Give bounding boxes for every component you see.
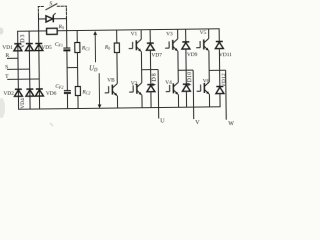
wire rectifier leg 3 <box>38 31 41 109</box>
diode VD4 <box>26 89 34 96</box>
wire rectifier leg 1 <box>17 31 20 109</box>
svg-text:V6: V6 <box>203 79 210 85</box>
svg-text:S: S <box>5 64 8 70</box>
diode VD8 <box>147 70 155 108</box>
svg-text:V: V <box>195 120 200 126</box>
svg-text:CF2: CF2 <box>55 84 63 90</box>
svg-text:VD12: VD12 <box>221 73 227 87</box>
diode VD12 <box>216 70 224 107</box>
capacitor CF2 <box>64 68 72 109</box>
wire mid node U <box>142 69 158 71</box>
diode VD11 <box>215 29 224 71</box>
svg-text:Rb: Rb <box>104 45 110 51</box>
svg-text:VD3: VD3 <box>20 33 26 48</box>
diode VD6 <box>35 89 43 96</box>
svg-text:VD1: VD1 <box>2 45 13 51</box>
svg-text:CF1: CF1 <box>55 42 63 48</box>
diode VD7 <box>146 30 154 70</box>
svg-text:VD5: VD5 <box>41 45 52 51</box>
resistor Rb <box>114 30 119 53</box>
resistor RC1 <box>75 30 80 67</box>
wire diode branch left <box>38 18 45 20</box>
transistor V2 <box>129 70 142 108</box>
svg-text:VD6: VD6 <box>46 91 57 97</box>
wire mid node V <box>178 69 193 71</box>
diode VD2 <box>14 89 22 96</box>
transistor V4 <box>165 70 178 107</box>
scan smudge left edge upper <box>0 28 4 35</box>
svg-text:VD10: VD10 <box>187 72 193 87</box>
wire soft-start left node <box>37 15 39 31</box>
transistor V3 <box>165 29 178 70</box>
wire input T <box>8 78 39 80</box>
svg-text:RC2: RC2 <box>81 89 90 95</box>
wire output W <box>225 70 228 119</box>
wire rectifier leg 2 <box>28 31 31 109</box>
svg-text:VD4: VD4 <box>20 98 26 109</box>
wire soft-start right node <box>65 18 67 31</box>
svg-text:RS: RS <box>58 24 64 30</box>
diode VD3 <box>25 44 33 51</box>
svg-text:VD9: VD9 <box>187 52 198 58</box>
wire diode branch right <box>53 18 66 20</box>
wire DC-link midpoint <box>67 67 77 69</box>
svg-text:S: S <box>49 1 52 7</box>
switch S (dashed bypass) <box>38 4 66 18</box>
svg-text:VD8: VD8 <box>152 72 158 86</box>
wire mid node W <box>209 69 225 71</box>
transistor V1 <box>128 30 141 70</box>
svg-text:U: U <box>160 118 165 124</box>
wire input R <box>7 57 17 59</box>
capacitor CF1 <box>63 31 70 68</box>
diode VD5 <box>35 43 43 50</box>
resistor Rs <box>47 28 58 34</box>
diode VD1 <box>14 44 22 51</box>
wire top DC bus <box>18 29 219 31</box>
wire output V <box>192 70 195 119</box>
svg-text:V1: V1 <box>131 31 138 37</box>
transistor V5 <box>196 29 209 71</box>
svg-text:V2: V2 <box>131 81 138 87</box>
transistor V6 <box>196 70 209 107</box>
svg-text:V3: V3 <box>166 31 173 37</box>
svg-text:VD2: VD2 <box>3 91 14 97</box>
wire bottom DC bus <box>19 107 220 109</box>
scan smudge left edge lower <box>0 98 5 118</box>
node UD arrow upper <box>93 31 97 62</box>
svg-text:V4: V4 <box>165 80 172 86</box>
wire input S <box>8 68 30 70</box>
resistor RC2 <box>75 67 81 108</box>
svg-text:VB: VB <box>107 77 115 83</box>
svg-text:R: R <box>5 53 9 59</box>
node UD arrow lower <box>97 73 101 108</box>
diode VD9 <box>182 29 191 70</box>
svg-text:VD7: VD7 <box>151 52 162 58</box>
svg-text:RC1: RC1 <box>81 45 90 51</box>
wire output U <box>157 70 160 119</box>
scan speck bottom center <box>50 123 53 126</box>
svg-text:W: W <box>228 121 234 127</box>
diode VDs (soft start, pointing right) <box>46 13 56 22</box>
diode VD10 <box>182 70 190 107</box>
svg-text:VD11: VD11 <box>219 52 232 58</box>
transistor VB (brake IGBT) <box>104 53 117 109</box>
svg-text:V5: V5 <box>200 30 207 36</box>
